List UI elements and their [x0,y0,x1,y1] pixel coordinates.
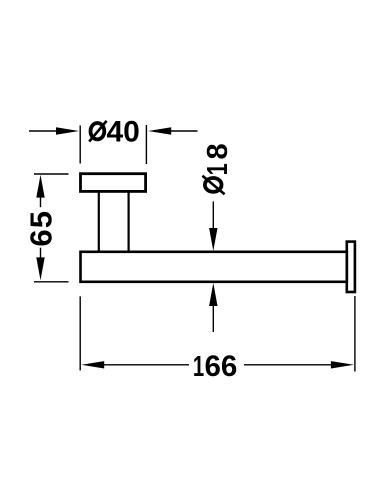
dimension 65: upper dimension line [40,196,42,207]
dimension Ø40: diameter symbol [89,121,106,142]
horizontal bar (paper holder arm) [81,252,347,282]
dimension 166: left dimension line [102,364,189,366]
dimension 166: right dimension line [244,364,332,366]
svg-text:40: 40 [107,116,140,149]
dimension 166: right arrowhead (points right) [331,361,354,368]
svg-text:1: 1 [193,350,204,382]
dimension 65: upper arrowhead (points up) [36,175,44,198]
dimension Ø18: diameter symbol (rotated) [202,176,224,195]
dimension 166: left arrowhead (points left) [81,361,104,368]
post stem left line [98,191,100,252]
svg-text:1: 1 [202,163,234,175]
dimension 65: lower arrowhead (points down) [36,257,44,280]
dimension Ø18: upper dimension line [212,201,214,230]
dimension 166: left extension line [79,296,81,370]
dimension 65: lower dimension line [40,248,42,259]
dimension Ø40: left dimension line [29,130,60,132]
dimension Ø18: lower dimension line [212,304,214,332]
svg-text:8: 8 [202,143,234,159]
wall flange (side view, right end) [347,242,355,292]
dimension Ø40: right extension line [145,125,147,164]
svg-text:5: 5 [23,211,58,228]
dimension Ø18: upper arrowhead (points down to bar top) [209,228,217,251]
dimension Ø40: left arrowhead [56,127,79,134]
dimension 65: value label (rotated) [23,211,58,247]
svg-text:6: 6 [23,229,58,246]
dimension Ø40: left extension line [79,126,81,164]
post stem right line [128,191,130,252]
dimension 65: top extension line [34,173,69,175]
dimension Ø40: right arrowhead [148,127,171,134]
wall-mount plate (top view of rosette) [81,174,146,192]
dimension 166: right extension line [354,296,356,372]
dimension 65: bottom extension line [34,281,69,283]
dimension Ø40: right dimension line [168,130,198,132]
dimension Ø18: lower arrowhead (points up to bar bottom) [209,283,217,306]
svg-text:66: 66 [205,350,238,383]
